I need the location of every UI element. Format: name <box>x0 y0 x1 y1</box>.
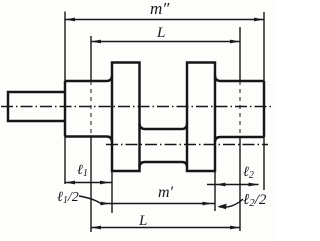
dimension line m'' (y=19.5) <box>65 19 264 21</box>
dimension line l2 (y=184.5) <box>207 184 259 186</box>
left journal bottom surface with fillet into web 1 <box>65 137 112 143</box>
extension of web 1 left face below (for l1 and m') <box>111 171 113 213</box>
crankpin top surface with fillets <box>140 124 188 130</box>
svg-text:ℓ2: ℓ2 <box>243 165 254 181</box>
arrowhead l2 right <box>249 183 259 187</box>
crank web 1 outline <box>112 63 140 172</box>
arrowhead m' left <box>101 202 111 206</box>
arrowhead m'' right <box>254 18 264 22</box>
svg-text:ℓ1: ℓ1 <box>77 163 88 179</box>
dimension line L top (y=41.5) <box>91 41 240 43</box>
svg-text:ℓ1/2: ℓ1/2 <box>57 190 79 206</box>
arrowhead l1 left <box>65 181 75 185</box>
dimension line m' (y=202.5) <box>100 203 215 205</box>
left journal top surface with fillet into web 1 <box>65 76 112 82</box>
right journal bottom surface with fillet from web 2 <box>215 137 264 142</box>
extension line at x=240 below shaft <box>239 137 241 231</box>
arrowhead L top left <box>91 40 101 44</box>
extension line at x=91 below shaft <box>90 137 92 232</box>
leader curve for l1/2 <box>79 196 100 203</box>
arrowhead m'' left <box>65 18 75 22</box>
extension line at x=240 above shaft <box>239 27 241 81</box>
right journal top surface with fillet from web 2 <box>215 76 264 82</box>
dimension line l1 (y=182) <box>65 182 112 184</box>
arrowhead leader l2/2 <box>218 204 227 210</box>
extension line at x=264 above shaft <box>263 12 265 81</box>
extension line at x=65 below shaft <box>64 137 66 185</box>
arrowhead l1 right <box>100 181 110 185</box>
extension line at x=91 through shaft (hidden portion) <box>90 81 92 137</box>
arrowhead l2 left <box>216 183 226 187</box>
extension line at x=215 below web 2 <box>214 171 216 211</box>
main shaft axis (dash-dot centerline) <box>1 106 273 108</box>
crankpin bottom surface with fillets <box>140 162 188 167</box>
leader curve for l2/2 <box>219 199 243 207</box>
arrowhead L bottom left <box>91 226 101 230</box>
svg-text:L: L <box>156 25 165 41</box>
svg-text:m′: m′ <box>158 184 174 201</box>
svg-text:L: L <box>138 213 147 229</box>
crank web 2 outline <box>187 63 215 172</box>
extension line at x=264 below shaft <box>263 137 265 190</box>
extension line at x=240 through shaft (hidden portion) <box>239 81 241 137</box>
arrowhead L top right <box>230 40 240 44</box>
right end face of shaft <box>263 81 265 137</box>
crankpin axis (dash-dot centerline) <box>106 144 268 146</box>
arrowhead m' right <box>203 202 213 206</box>
extension line at x=65 above shaft <box>64 12 66 82</box>
dimension line L bottom (y=227.5) <box>91 227 240 229</box>
arrowhead L bottom right <box>230 226 240 230</box>
extension line at x=91 above shaft <box>90 36 92 81</box>
svg-text:ℓ2/2: ℓ2/2 <box>243 192 267 209</box>
svg-text:m″: m″ <box>150 0 170 18</box>
left stub shaft outline <box>8 92 65 121</box>
left shoulder face at x=65 <box>64 81 66 137</box>
